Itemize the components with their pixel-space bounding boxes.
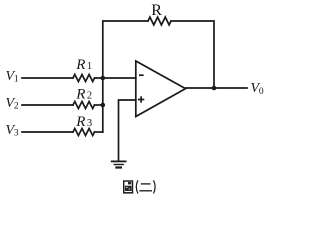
wire input V3: [22, 131, 73, 133]
svg-text:1: 1: [14, 74, 19, 84]
svg-text:R: R: [75, 86, 85, 102]
wire feedback top-left segment: [103, 21, 148, 78]
op-amp non-inverting pin plus sign: [138, 96, 144, 102]
wire non-inverting input to ground: [119, 100, 136, 161]
svg-text:0: 0: [259, 87, 264, 97]
node junction R2/bus: [101, 103, 106, 108]
op-amp inverting pin minus sign: [139, 74, 144, 76]
svg-text:2: 2: [14, 101, 19, 111]
svg-text:3: 3: [14, 128, 19, 138]
svg-text:1: 1: [87, 61, 92, 72]
resistor R: [148, 17, 171, 25]
node junction output/feedback: [212, 86, 217, 91]
op-amp U1 triangle: [136, 61, 186, 117]
wire summing bus: [102, 78, 104, 132]
wire R2 to summing node: [95, 104, 103, 106]
resistor R2: [73, 102, 95, 109]
svg-text:3: 3: [87, 118, 92, 129]
svg-text:R: R: [151, 2, 162, 19]
resistor R3: [73, 129, 95, 136]
wire input V1: [22, 77, 73, 79]
caption 二 (two) bottom stroke: [139, 190, 152, 192]
node A junction R1/feedback: [101, 76, 106, 81]
wire R1 to inverting input: [95, 77, 136, 79]
caption open parenthesis: [136, 180, 138, 193]
resistor R1: [73, 75, 95, 82]
caption figure 2 glyph 圖: [123, 181, 133, 193]
ground: [112, 161, 126, 167]
wire input V2: [22, 104, 73, 106]
wire output: [186, 87, 248, 89]
wire R3 to summing node: [95, 131, 103, 133]
svg-text:R: R: [75, 57, 85, 73]
svg-text:R: R: [75, 114, 85, 130]
caption 二 (two) top stroke: [141, 183, 151, 185]
svg-text:2: 2: [87, 90, 92, 101]
wire feedback top-right segment: [171, 21, 214, 88]
caption close parenthesis: [154, 180, 156, 193]
